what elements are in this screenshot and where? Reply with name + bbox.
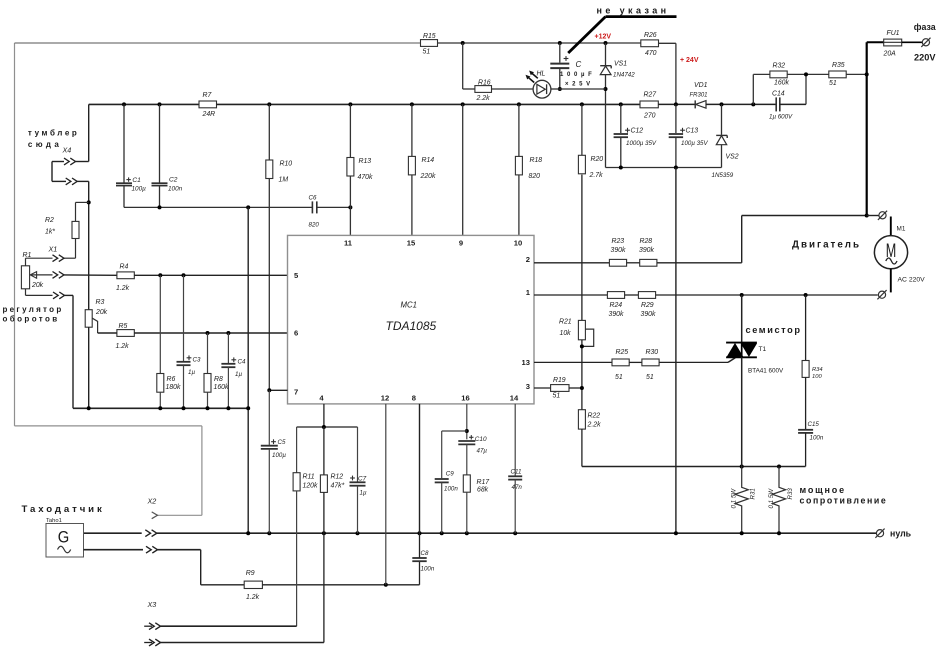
svg-text:R9: R9 <box>246 570 255 577</box>
svg-text:C10: C10 <box>475 436 487 443</box>
svg-text:24R: 24R <box>202 111 216 118</box>
svg-text:51: 51 <box>829 80 837 87</box>
svg-text:9: 9 <box>459 239 463 248</box>
svg-text:20k: 20k <box>95 309 108 316</box>
svg-text:сопротивление: сопротивление <box>800 496 888 506</box>
svg-text:C13: C13 <box>686 128 699 135</box>
svg-text:1000µ 35V: 1000µ 35V <box>626 140 657 147</box>
svg-text:C2: C2 <box>169 177 178 184</box>
svg-text:68k: 68k <box>477 487 489 494</box>
svg-text:160k: 160k <box>774 80 789 87</box>
svg-text:1.2k: 1.2k <box>246 594 260 601</box>
svg-text:6: 6 <box>294 329 298 338</box>
svg-text:2.7k: 2.7k <box>589 172 604 179</box>
svg-text:C12: C12 <box>631 128 644 135</box>
svg-text:3: 3 <box>526 382 530 391</box>
svg-text:R8: R8 <box>214 376 223 383</box>
svg-text:100n: 100n <box>810 435 824 442</box>
svg-text:1.2k: 1.2k <box>116 343 130 350</box>
svg-text:100µ 35V: 100µ 35V <box>681 140 708 147</box>
svg-text:R13: R13 <box>359 158 372 165</box>
svg-text:R30: R30 <box>646 349 659 356</box>
svg-text:470k: 470k <box>358 174 373 181</box>
svg-text:R16: R16 <box>478 80 491 87</box>
svg-text:R31: R31 <box>750 488 757 499</box>
svg-text:820: 820 <box>529 173 541 180</box>
svg-text:R15: R15 <box>423 33 436 40</box>
svg-text:51: 51 <box>615 374 623 381</box>
svg-text:мощное: мощное <box>800 485 846 495</box>
svg-text:11: 11 <box>344 239 353 248</box>
svg-text:FR301: FR301 <box>690 93 708 99</box>
svg-text:R17: R17 <box>477 479 491 486</box>
svg-text:100n: 100n <box>444 486 458 493</box>
svg-text:R11: R11 <box>303 474 315 481</box>
svg-text:C3: C3 <box>193 357 201 364</box>
svg-text:180k: 180k <box>166 384 181 391</box>
svg-text:× 2 5 V: × 2 5 V <box>565 82 591 88</box>
svg-text:1µ: 1µ <box>360 490 367 497</box>
svg-text:BTA41 600V: BTA41 600V <box>748 368 784 375</box>
svg-text:220k: 220k <box>420 173 436 180</box>
svg-text:1M: 1M <box>279 177 289 184</box>
svg-text:R24: R24 <box>610 302 623 309</box>
svg-text:R26: R26 <box>644 32 657 39</box>
svg-text:51: 51 <box>553 393 561 400</box>
svg-text:VS1: VS1 <box>614 61 627 68</box>
svg-text:7: 7 <box>294 388 298 397</box>
svg-text:8: 8 <box>412 394 416 403</box>
svg-text:R33: R33 <box>787 488 794 500</box>
svg-text:1µ 600V: 1µ 600V <box>769 114 793 121</box>
svg-text:R5: R5 <box>119 323 128 330</box>
svg-text:C7: C7 <box>358 475 367 482</box>
svg-text:47n: 47n <box>512 484 523 491</box>
svg-text:390k: 390k <box>611 247 626 254</box>
svg-text:R12: R12 <box>331 474 344 481</box>
svg-text:1N5359: 1N5359 <box>712 172 734 179</box>
svg-text:100: 100 <box>812 374 822 380</box>
svg-text:13: 13 <box>522 358 530 367</box>
svg-text:160k: 160k <box>214 384 229 391</box>
svg-text:X4: X4 <box>62 146 72 155</box>
svg-text:R29: R29 <box>641 302 654 309</box>
svg-text:R1: R1 <box>23 252 32 259</box>
svg-text:R27: R27 <box>644 92 658 99</box>
svg-text:470: 470 <box>645 50 657 57</box>
svg-text:R34: R34 <box>812 367 823 373</box>
svg-text:G: G <box>58 528 70 547</box>
svg-text:120k: 120k <box>303 483 318 490</box>
svg-text:12: 12 <box>381 394 389 403</box>
svg-text:X3: X3 <box>147 600 157 609</box>
svg-text:1k*: 1k* <box>45 229 55 236</box>
svg-text:Двигатель: Двигатель <box>792 240 861 251</box>
svg-text:Таходатчик: Таходатчик <box>22 504 105 515</box>
svg-text:нуль: нуль <box>890 529 912 539</box>
svg-text:регулятор: регулятор <box>3 305 64 314</box>
svg-text:C8: C8 <box>421 550 429 557</box>
svg-text:1µ: 1µ <box>188 369 195 376</box>
svg-text:C15: C15 <box>808 421 820 428</box>
svg-text:R28: R28 <box>640 238 653 245</box>
svg-text:0.1 5W: 0.1 5W <box>768 488 775 509</box>
svg-text:51: 51 <box>646 374 654 381</box>
svg-text:оборотов: оборотов <box>3 315 60 324</box>
svg-text:100n: 100n <box>168 185 183 192</box>
svg-text:MC1: MC1 <box>401 301 417 310</box>
svg-text:HL: HL <box>537 71 546 78</box>
svg-text:тумблер: тумблер <box>28 129 80 138</box>
svg-text:R32: R32 <box>773 63 786 70</box>
svg-text:R4: R4 <box>120 264 129 271</box>
svg-text:R14: R14 <box>422 157 435 164</box>
svg-text:1 0 0 µ F: 1 0 0 µ F <box>560 72 593 78</box>
svg-text:100µ: 100µ <box>132 186 147 193</box>
svg-text:C4: C4 <box>238 359 246 366</box>
svg-text:T1: T1 <box>759 346 767 353</box>
svg-text:20A: 20A <box>883 51 897 58</box>
svg-text:2.2k: 2.2k <box>476 95 491 102</box>
svg-text:R35: R35 <box>832 62 845 69</box>
svg-text:14: 14 <box>510 394 519 403</box>
svg-text:сюда: сюда <box>28 140 62 149</box>
svg-text:FU1: FU1 <box>887 30 900 37</box>
svg-text:R20: R20 <box>591 156 604 163</box>
svg-text:AC 220V: AC 220V <box>898 277 926 284</box>
svg-text:R19: R19 <box>553 377 566 384</box>
svg-text:R7: R7 <box>203 92 213 99</box>
svg-text:390k: 390k <box>641 311 656 318</box>
svg-text:R21: R21 <box>559 319 572 326</box>
svg-text:R6: R6 <box>167 376 176 383</box>
svg-text:10k: 10k <box>560 330 572 337</box>
svg-text:15: 15 <box>407 239 416 248</box>
svg-text:390k: 390k <box>639 247 654 254</box>
svg-text:390k: 390k <box>609 311 624 318</box>
svg-text:R18: R18 <box>530 157 543 164</box>
svg-text:820: 820 <box>309 222 320 229</box>
svg-text:1µ: 1µ <box>235 371 242 378</box>
svg-text:R22: R22 <box>588 413 601 420</box>
svg-text:R10: R10 <box>280 161 293 168</box>
svg-text:+12V: +12V <box>595 34 612 41</box>
svg-text:X1: X1 <box>48 245 58 254</box>
svg-text:R23: R23 <box>612 238 625 245</box>
svg-text:VS2: VS2 <box>726 154 739 161</box>
svg-text:47k*: 47k* <box>331 483 345 490</box>
svg-text:1N4742: 1N4742 <box>613 72 635 79</box>
svg-text:2.2k: 2.2k <box>587 422 602 429</box>
svg-text:20k: 20k <box>31 282 44 289</box>
svg-text:семистор: семистор <box>746 325 802 335</box>
svg-text:2: 2 <box>526 255 530 264</box>
svg-text:R3: R3 <box>96 299 105 306</box>
svg-text:100µ: 100µ <box>272 452 286 459</box>
svg-text:10: 10 <box>514 239 522 248</box>
svg-text:VD1: VD1 <box>694 82 708 89</box>
svg-text:R2: R2 <box>45 217 54 224</box>
svg-text:+ 24V: + 24V <box>680 57 699 64</box>
svg-text:C11: C11 <box>511 469 522 476</box>
svg-text:C14: C14 <box>772 91 785 98</box>
svg-text:не указан: не указан <box>597 6 670 16</box>
svg-text:0.1 5W: 0.1 5W <box>731 488 738 509</box>
svg-text:270: 270 <box>643 113 656 120</box>
svg-text:R25: R25 <box>616 349 629 356</box>
svg-text:C5: C5 <box>278 439 286 446</box>
svg-text:100n: 100n <box>421 566 435 573</box>
svg-text:47µ: 47µ <box>477 448 488 455</box>
svg-text:C6: C6 <box>309 195 317 202</box>
svg-text:X2: X2 <box>147 497 157 506</box>
svg-text:TDA1085: TDA1085 <box>386 319 437 333</box>
svg-text:C1: C1 <box>132 177 141 184</box>
svg-text:1.2k: 1.2k <box>116 285 130 292</box>
svg-text:M1: M1 <box>897 226 906 233</box>
svg-text:220V: 220V <box>914 53 936 63</box>
svg-text:C: C <box>576 60 582 69</box>
svg-text:C9: C9 <box>446 471 454 478</box>
svg-text:фаза: фаза <box>914 22 936 32</box>
svg-text:16: 16 <box>461 394 469 403</box>
svg-text:51: 51 <box>423 49 431 56</box>
